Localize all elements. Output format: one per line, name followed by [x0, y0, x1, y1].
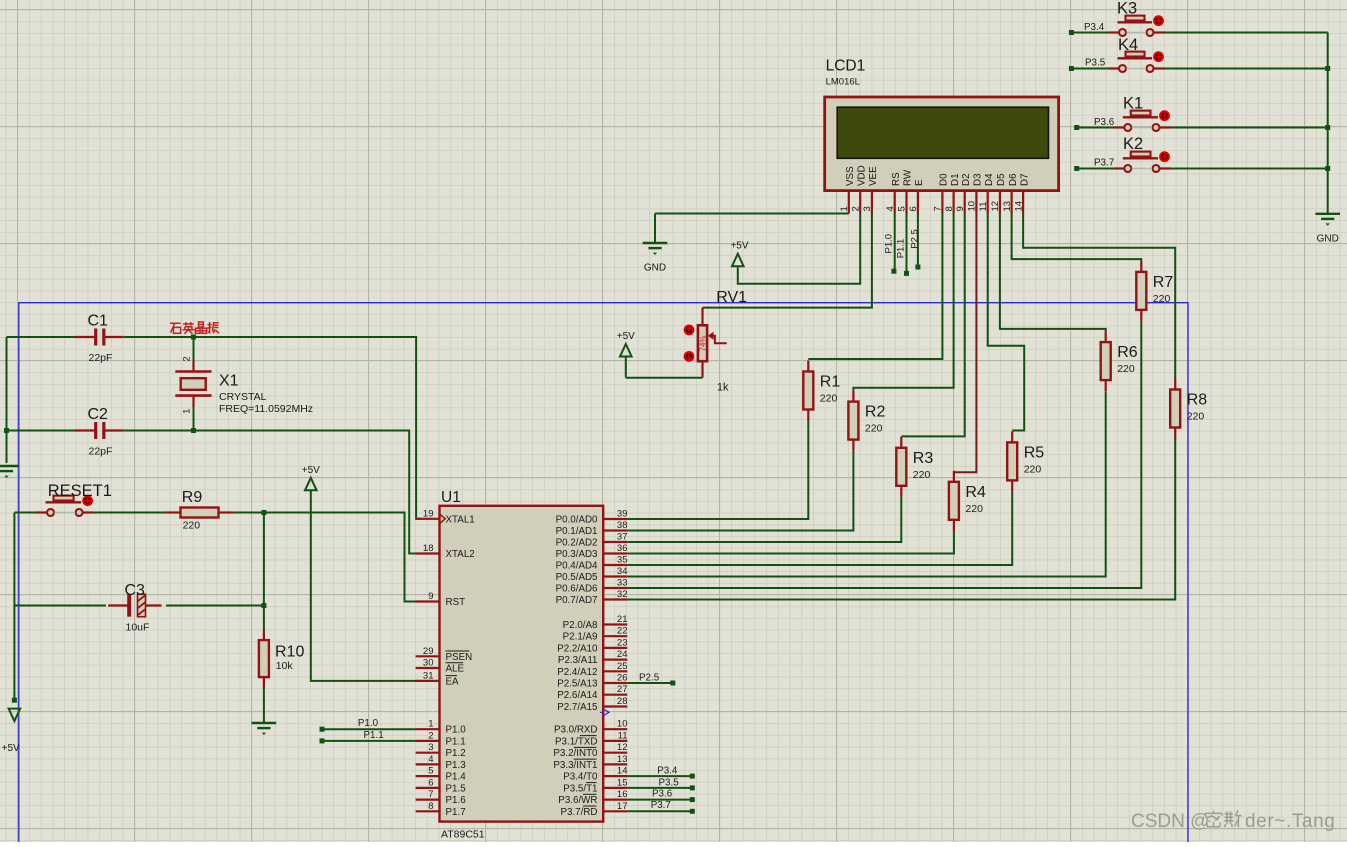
svg-text:P2.6/A14: P2.6/A14 [557, 690, 598, 701]
ground (LCD VSS) [643, 243, 668, 274]
svg-text:P2.7/A15: P2.7/A15 [557, 702, 598, 713]
svg-text:10: 10 [617, 719, 628, 730]
svg-text:2: 2 [428, 730, 433, 741]
wire pin 26 to P2.5 label pad [627, 682, 673, 684]
svg-text:220: 220 [865, 423, 883, 435]
svg-text:P3.7/RD: P3.7/RD [560, 807, 597, 818]
svg-text:P1.3: P1.3 [446, 760, 467, 771]
svg-text:P3.2/INT0: P3.2/INT0 [553, 748, 598, 759]
svg-text:220: 220 [1024, 463, 1042, 475]
wire R10 to GND [263, 688, 265, 724]
svg-text:P2.3/A11: P2.3/A11 [558, 655, 598, 666]
svg-text:28: 28 [617, 696, 628, 707]
pad net P3.7 (K2) [1074, 166, 1079, 171]
wire C1 row left segment [7, 336, 76, 338]
svg-text:D3: D3 [973, 173, 984, 186]
wire P0.2 to R3 bottom [627, 497, 901, 542]
svg-text:11: 11 [978, 202, 989, 212]
svg-text:P2.1/A9: P2.1/A9 [563, 632, 598, 643]
U1 XTAL1 clock input marker [440, 515, 445, 523]
resistor R10 10k [259, 630, 305, 688]
svg-text:LCD1: LCD1 [826, 58, 866, 75]
pad net P2.5 (LCD E) [915, 265, 920, 270]
svg-text:220: 220 [1117, 363, 1135, 375]
svg-text:E: E [914, 179, 925, 186]
svg-text:P0.0/AD0: P0.0/AD0 [556, 515, 598, 526]
wire P0.6 to R7 bottom [627, 321, 1141, 588]
push button K4 [1109, 36, 1165, 72]
svg-text:K4: K4 [1118, 36, 1138, 54]
svg-text:C3: C3 [125, 582, 146, 599]
wire LCD D0 to R1 top [808, 214, 942, 360]
wire P0.4 to R5 bottom [627, 491, 1012, 565]
svg-text:RST: RST [446, 597, 466, 608]
svg-text:P3.6: P3.6 [1094, 117, 1115, 128]
wire LCD E to P2.5 pad [917, 214, 919, 268]
svg-text:220: 220 [1187, 411, 1205, 423]
svg-text:21: 21 [617, 614, 628, 625]
MCU U1 AT89C51 body [440, 506, 604, 822]
svg-text:C2: C2 [88, 406, 109, 423]
node reset row / R10 branch [261, 510, 266, 515]
svg-text:P0.7/AD7: P0.7/AD7 [556, 595, 598, 606]
wire crystal-top node to XTAL1 [194, 337, 422, 519]
svg-text:P2.2/A10: P2.2/A10 [557, 643, 598, 654]
pad net P3.7 (right of U1) [690, 809, 695, 814]
svg-text:P2.5/A13: P2.5/A13 [557, 679, 598, 690]
svg-text:35: 35 [617, 555, 628, 566]
wire LCD RS to P1.0 pad [894, 214, 896, 272]
capacitor C2 22pF [75, 406, 124, 458]
svg-text:3: 3 [862, 206, 873, 211]
wire C2 row left segment [7, 430, 76, 432]
red annotation 石英晶振 (quartz crystal) [170, 322, 219, 334]
svg-text:220: 220 [1153, 293, 1171, 305]
svg-text:1: 1 [428, 719, 433, 730]
capacitor C3 10uF (electrolytic) [108, 582, 161, 634]
svg-text:P1.4: P1.4 [446, 772, 467, 783]
svg-text:P3.7: P3.7 [651, 800, 671, 811]
wire RV1 bottom to +5V [626, 377, 703, 379]
wire C3 to reset node [166, 605, 264, 607]
svg-text:14: 14 [1013, 201, 1024, 212]
pad net P3.4 (right of U1) [690, 774, 695, 779]
svg-text:RV1: RV1 [716, 289, 747, 306]
wire pin 14 to P3.4 label pad [627, 775, 692, 777]
svg-text:XTAL1: XTAL1 [446, 514, 475, 525]
wire +5V rail vertical [13, 513, 15, 701]
svg-text:PSEN: PSEN [446, 652, 473, 663]
crystal X1 11.0592MHz [175, 361, 211, 408]
svg-text:R6: R6 [1117, 344, 1138, 361]
wire K1 right to GND bus [1170, 127, 1328, 129]
ground (left rail) [0, 466, 19, 478]
svg-text:10: 10 [967, 201, 978, 212]
wire GND stem [654, 214, 656, 244]
wire LCD D4 to R5 top [988, 214, 1024, 431]
svg-text:K3: K3 [1117, 0, 1137, 17]
svg-text:R1: R1 [820, 374, 841, 391]
svg-text:R2: R2 [865, 404, 886, 421]
svg-text:C1: C1 [88, 313, 109, 330]
svg-text:P1.0: P1.0 [884, 234, 895, 254]
LCD pin stubs 1-14 [849, 191, 1023, 214]
svg-text:22pF: 22pF [89, 446, 113, 458]
svg-text:P0.4/AD4: P0.4/AD4 [556, 561, 598, 572]
svg-text:P3.5: P3.5 [659, 777, 680, 788]
wire crystal pin 1 to node [193, 407, 195, 431]
svg-text:VEE: VEE [868, 166, 879, 186]
svg-text:3: 3 [428, 742, 433, 753]
svg-text:9: 9 [955, 206, 966, 211]
wire P3.5 pad to K4 left [1071, 68, 1109, 70]
svg-text:24: 24 [617, 649, 628, 660]
svg-text:22pF: 22pF [89, 352, 113, 364]
wire P0.0 to R1 bottom [627, 421, 808, 520]
svg-text:33: 33 [617, 578, 628, 589]
svg-text:6: 6 [428, 777, 433, 788]
svg-text:U1: U1 [441, 489, 461, 506]
svg-text:220: 220 [183, 520, 201, 532]
svg-text:P3.5/T1: P3.5/T1 [563, 783, 597, 794]
svg-text:P0.1/AD1: P0.1/AD1 [556, 526, 598, 537]
svg-text:5: 5 [897, 206, 908, 211]
svg-text:FREQ=11.0592MHz: FREQ=11.0592MHz [219, 403, 313, 415]
svg-text:P1.0: P1.0 [358, 718, 379, 729]
svg-text:RS: RS [891, 172, 902, 186]
push button K2 [1114, 135, 1171, 172]
svg-text:14: 14 [617, 766, 628, 777]
svg-text:AT89C51: AT89C51 [441, 829, 485, 841]
svg-text:+5V: +5V [730, 241, 748, 252]
svg-text:P1.1: P1.1 [446, 736, 466, 747]
RV1 up actuator (red) [685, 326, 694, 335]
power +5V (bottom left, inverted) [2, 709, 21, 755]
power +5V (EA / reset) [302, 465, 320, 491]
svg-text:X1: X1 [219, 373, 239, 390]
svg-text:1: 1 [839, 206, 850, 211]
svg-text:R7: R7 [1153, 274, 1174, 291]
wire pin 16 to P3.6 label pad [627, 799, 692, 801]
svg-text:P1.2: P1.2 [446, 748, 466, 759]
wire P3.7 pad to K2 left [1077, 168, 1114, 170]
resistor R5 220 [1007, 431, 1044, 491]
svg-text:P3.0/RXD: P3.0/RXD [554, 725, 598, 736]
svg-text:R8: R8 [1187, 392, 1208, 409]
origin marker (blue) [600, 709, 609, 716]
wire LCD D5 to R6 top [1000, 214, 1106, 332]
svg-text:2: 2 [850, 206, 861, 211]
svg-text:P3.4: P3.4 [657, 766, 678, 777]
svg-text:4: 4 [428, 754, 433, 765]
svg-text:D1: D1 [950, 173, 961, 186]
node left rail / C2 [4, 428, 9, 433]
svg-text:LM016L: LM016L [826, 77, 860, 88]
svg-text:P1.6: P1.6 [446, 795, 467, 806]
node C3 / R10 [261, 603, 266, 608]
wire P0.1 to R2 bottom [627, 451, 853, 531]
svg-text:P1.1: P1.1 [364, 730, 384, 741]
ground (below R10) [252, 723, 277, 735]
svg-text:R3: R3 [913, 450, 934, 467]
svg-text:P2.5: P2.5 [910, 229, 921, 249]
node +5V rail bottom [12, 698, 17, 703]
svg-text:23: 23 [617, 637, 628, 648]
power +5V (LCD VDD) [730, 241, 748, 267]
svg-text:GND: GND [644, 263, 666, 274]
svg-text:P2.5: P2.5 [639, 672, 660, 683]
svg-text:12: 12 [990, 201, 1001, 212]
wire LCD D1 to R2 top [853, 214, 953, 391]
svg-text:P1.0: P1.0 [446, 725, 467, 736]
svg-text:30: 30 [423, 658, 434, 669]
svg-text:GND: GND [1317, 233, 1339, 244]
wire +5V rail to RESET1 [14, 512, 42, 514]
svg-text:VSS: VSS [845, 166, 856, 186]
pad net P1.0 (LCD RS) [891, 269, 896, 274]
svg-text:P3.3/INT1: P3.3/INT1 [553, 760, 597, 771]
svg-text:D4: D4 [984, 173, 995, 186]
pad net P3.6 (right of U1) [690, 797, 695, 802]
wire LCD D3 to R4 top (red net) [954, 214, 977, 473]
svg-text:P0.2/AD2: P0.2/AD2 [556, 538, 598, 549]
wire rail to C3 [14, 605, 106, 607]
wire LCD D2 to R3 top [901, 214, 964, 437]
svg-text:13: 13 [1002, 201, 1013, 212]
svg-text:P3.4: P3.4 [1084, 22, 1105, 33]
svg-text:31: 31 [423, 670, 434, 681]
svg-text:8: 8 [944, 206, 955, 211]
wire node to crystal pin 2 [193, 337, 195, 361]
wire LCD D6 to R7 top [1012, 214, 1142, 262]
wire P1.0 label pad to pin 1 [322, 728, 416, 730]
svg-text:39: 39 [617, 509, 628, 520]
resistor R9 220 [166, 489, 233, 531]
svg-text:12: 12 [617, 742, 628, 753]
wire P1.1 label pad to pin 2 [322, 740, 416, 742]
svg-text:220: 220 [965, 503, 983, 515]
svg-text:29: 29 [423, 646, 434, 657]
svg-text:P3.6: P3.6 [652, 788, 673, 799]
svg-text:D6: D6 [1008, 173, 1019, 186]
svg-text:CSDN @: CSDN @ [1131, 811, 1209, 832]
svg-text:RW: RW [903, 169, 914, 186]
pad net P3.5 (K4) [1069, 66, 1074, 71]
svg-text:R10: R10 [275, 644, 304, 661]
resistor R8 220 [1170, 379, 1207, 439]
svg-text:36: 36 [617, 543, 628, 554]
potentiometer RV1 1k [698, 308, 727, 378]
wire pin 17 to P3.7 label pad [627, 810, 692, 812]
pad net P3.5 (right of U1) [690, 785, 695, 790]
wire C1 to crystal-top node [124, 336, 194, 338]
svg-text:32: 32 [617, 589, 628, 600]
svg-text:6: 6 [908, 206, 919, 211]
svg-text:P3.1/TXD: P3.1/TXD [555, 736, 597, 747]
svg-text:P0.6/AD6: P0.6/AD6 [556, 584, 598, 595]
svg-text:19: 19 [423, 508, 434, 519]
wire C2 to crystal-bottom node [124, 430, 194, 432]
wire crystal-bottom node to XTAL2 [194, 431, 422, 554]
svg-text:10k: 10k [276, 660, 294, 672]
power +5V (RV1) [617, 331, 635, 357]
svg-text:22: 22 [617, 626, 628, 637]
svg-text:220: 220 [820, 393, 838, 405]
LCD LCD1 LM016L body [825, 97, 1059, 191]
resistor R6 220 [1101, 331, 1138, 391]
wire LCD VEE to RV1 top [703, 214, 872, 308]
svg-text:7: 7 [428, 789, 433, 800]
resistor R1 220 [803, 361, 840, 421]
pad net P2.5 (right of U1) [670, 681, 675, 686]
pad net P3.6 (K1) [1074, 125, 1079, 130]
wire P3.4 pad to K3 left [1071, 32, 1109, 34]
svg-text:P3.6/WR: P3.6/WR [558, 795, 597, 806]
node crystal pin2 / C1 / XTAL1 [191, 335, 196, 340]
wire +5V stem mid-left [625, 357, 627, 378]
svg-text:P0.3/AD3: P0.3/AD3 [556, 549, 598, 560]
svg-text:P1.5: P1.5 [446, 783, 467, 794]
wire LCD VSS to GND [655, 213, 849, 215]
svg-text:der~.Tang: der~.Tang [1245, 811, 1335, 832]
push button K3 [1109, 0, 1165, 36]
wire LCD VDD to +5V [738, 214, 860, 284]
resistor R7 220 [1136, 261, 1173, 321]
svg-text:ALE: ALE [446, 664, 465, 675]
svg-text:P0.5/AD5: P0.5/AD5 [556, 572, 598, 583]
svg-text:11: 11 [618, 730, 628, 741]
ground (K buttons) [1315, 214, 1340, 245]
U1 right pin stubs [603, 519, 627, 811]
svg-text:37: 37 [617, 532, 628, 543]
wire K2 right to GND bus [1170, 168, 1328, 170]
svg-text:9: 9 [428, 591, 433, 602]
svg-text:P2.4/A12: P2.4/A12 [557, 667, 597, 678]
svg-text:2: 2 [182, 356, 193, 361]
svg-text:+5V: +5V [617, 331, 635, 342]
wire P0.3 to R4 bottom [627, 531, 954, 554]
svg-text:P1.1: P1.1 [896, 239, 907, 259]
svg-text:4: 4 [885, 206, 896, 211]
svg-text:7: 7 [933, 206, 944, 211]
wire P0.5 to R6 bottom [627, 391, 1105, 576]
wire +5V to EA pin [311, 491, 417, 681]
svg-text:+5V: +5V [302, 465, 320, 476]
svg-text:R9: R9 [182, 489, 203, 506]
node K2 / GND bus [1325, 166, 1330, 171]
svg-text:220: 220 [913, 469, 931, 481]
svg-text:16: 16 [617, 789, 628, 800]
wire reset node down to R10 [263, 513, 265, 630]
svg-text:34: 34 [617, 566, 628, 577]
svg-text:D5: D5 [996, 173, 1007, 186]
push button K1 [1114, 94, 1171, 131]
wire GND bus vertical [1327, 33, 1329, 214]
svg-text:27: 27 [617, 684, 628, 695]
svg-text:P3.7: P3.7 [1094, 158, 1114, 169]
wire pin 15 to P3.5 label pad [627, 787, 692, 789]
pad net P1.1 (LCD RW) [904, 271, 909, 276]
svg-text:P3.5: P3.5 [1085, 58, 1106, 69]
svg-text:P2.0/A8: P2.0/A8 [563, 620, 598, 631]
wire left rail C1-row to GND [6, 337, 8, 463]
RV1 down actuator (red) [685, 352, 694, 361]
svg-text:R5: R5 [1024, 444, 1045, 461]
U1 left pin stubs [416, 519, 440, 812]
wire K4 right to GND bus [1165, 68, 1328, 70]
wire P0.7 to R8 bottom [627, 439, 1175, 600]
svg-text:XTAL2: XTAL2 [446, 549, 475, 560]
node K4 / GND bus [1325, 66, 1330, 71]
svg-text:74%: 74% [698, 335, 707, 351]
node K1 / GND bus [1325, 125, 1330, 130]
svg-text:13: 13 [617, 754, 628, 765]
wire RESET1 to R9 [88, 512, 167, 514]
resistor R3 220 [896, 437, 933, 497]
svg-text:8: 8 [428, 801, 433, 812]
svg-text:38: 38 [617, 520, 628, 531]
wire R9 to RST pin [233, 513, 421, 602]
svg-text:1: 1 [182, 409, 193, 414]
node crystal pin1 / C2 / XTAL2 [191, 428, 196, 433]
svg-text:R4: R4 [965, 484, 986, 501]
svg-text:P1.7: P1.7 [446, 807, 466, 818]
svg-text:17: 17 [617, 801, 628, 812]
svg-text:D2: D2 [961, 173, 972, 186]
resistor R2 220 [848, 391, 885, 451]
svg-text:VDD: VDD [856, 165, 867, 186]
svg-text:EA: EA [446, 676, 460, 687]
wire LCD D7 to R8 top [1023, 214, 1175, 379]
pad net P1.1 (left) [320, 738, 325, 743]
svg-text:K1: K1 [1123, 94, 1143, 112]
wire P3.6 pad to K1 left [1077, 127, 1114, 129]
svg-text:5: 5 [428, 766, 433, 777]
svg-text:+5V: +5V [2, 743, 20, 754]
svg-text:D0: D0 [939, 173, 950, 186]
svg-text:10uF: 10uF [126, 621, 150, 633]
pad net P3.4 (K3) [1069, 30, 1074, 35]
svg-text:K2: K2 [1123, 135, 1143, 153]
sheet border (blue) [19, 303, 1188, 842]
svg-text:CRYSTAL: CRYSTAL [219, 391, 267, 403]
svg-text:18: 18 [423, 543, 434, 554]
svg-text:RESET1: RESET1 [48, 482, 112, 500]
svg-text:26: 26 [617, 673, 628, 684]
svg-text:D7: D7 [1019, 173, 1030, 186]
pad net P1.0 (left) [320, 727, 325, 732]
wire K3 right to GND bus [1165, 32, 1328, 34]
svg-text:P3.4/T0: P3.4/T0 [563, 772, 598, 783]
push button RESET1 [37, 482, 112, 516]
capacitor C1 22pF [75, 313, 124, 365]
svg-text:1k: 1k [717, 382, 729, 394]
resistor R4 220 [949, 471, 986, 531]
svg-text:15: 15 [617, 777, 628, 788]
svg-text:25: 25 [617, 661, 628, 672]
watermark CSDN @密斯der~.Tang [1131, 811, 1335, 833]
wire LCD RW to P1.1 pad [906, 214, 908, 274]
